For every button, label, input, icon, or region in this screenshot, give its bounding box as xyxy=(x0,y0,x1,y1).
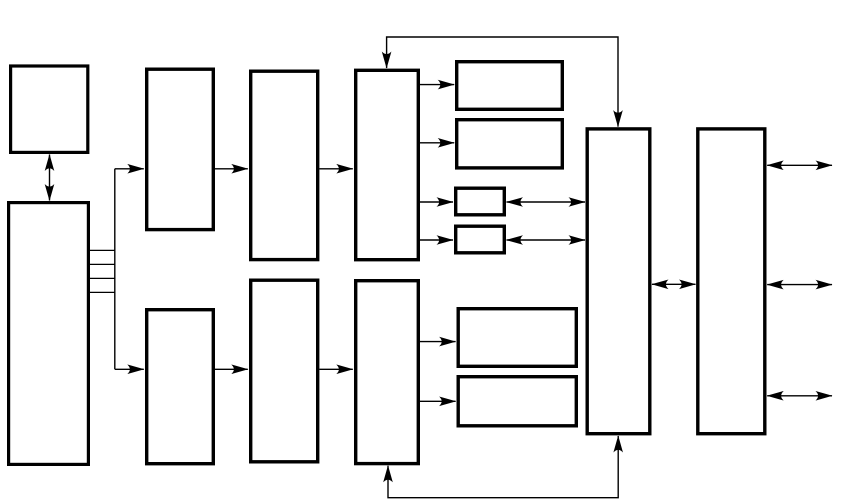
block I (tall right block 1) xyxy=(587,129,650,434)
wire F to G arrow xyxy=(215,368,248,370)
wire small box 1 to block I bidirectional arrow xyxy=(507,201,586,203)
wide box 4 (bottom right) xyxy=(458,377,576,426)
wire C to D arrow xyxy=(215,168,248,170)
wide box 1 (top right) xyxy=(457,62,563,110)
wire H to wide box 3 arrow xyxy=(420,341,456,343)
wire bus rung 3 xyxy=(90,277,115,279)
wire H to wide box 4 arrow xyxy=(420,400,456,402)
block G (bottom row, column 3) xyxy=(251,280,318,462)
wire D to E arrow xyxy=(319,168,352,170)
block E (top row, column 4) xyxy=(356,70,419,259)
small box 1 xyxy=(456,188,505,215)
block C (top row, column 2) xyxy=(147,69,214,229)
wire J external bidirectional arrow 1 xyxy=(767,164,832,166)
block H (bottom row, column 4) xyxy=(356,281,419,464)
wire E to small box 2 arrow xyxy=(420,239,453,241)
wire E to wide box 1 arrow xyxy=(420,84,454,86)
wire bottom feedback H-I (arrows into both) xyxy=(388,436,618,498)
block J (tall right block 2) xyxy=(698,129,765,434)
wire bus to block F arrow xyxy=(115,368,144,370)
block D (top row, column 3) xyxy=(251,71,318,259)
wire I to J bidirectional arrow xyxy=(652,283,696,285)
wire bus rung 4 xyxy=(90,291,115,293)
wire vertical bus xyxy=(114,169,116,369)
wire G to H arrow xyxy=(319,368,352,370)
wire small box 2 to block I bidirectional arrow xyxy=(507,239,586,241)
block A (top-left square) xyxy=(11,66,88,152)
wire A-B bidirectional arrow xyxy=(49,155,51,201)
wide box 3 (bottom right) xyxy=(458,309,576,367)
wire bus rung 1 xyxy=(90,249,115,251)
wire J external bidirectional arrow 2 xyxy=(767,284,832,286)
wire E to small box 1 arrow xyxy=(420,201,453,203)
wire bus rung 2 xyxy=(90,263,115,265)
wire E to wide box 2 arrow xyxy=(420,142,454,144)
block B (tall left block) xyxy=(9,203,89,465)
wire bus to block C arrow xyxy=(115,168,144,170)
small box 2 xyxy=(456,226,505,253)
block F (bottom row, column 2) xyxy=(147,310,214,464)
wide box 2 xyxy=(457,120,563,168)
wire J external bidirectional arrow 3 xyxy=(767,395,832,397)
wire top feedback E-I (arrows into both) xyxy=(387,37,618,127)
